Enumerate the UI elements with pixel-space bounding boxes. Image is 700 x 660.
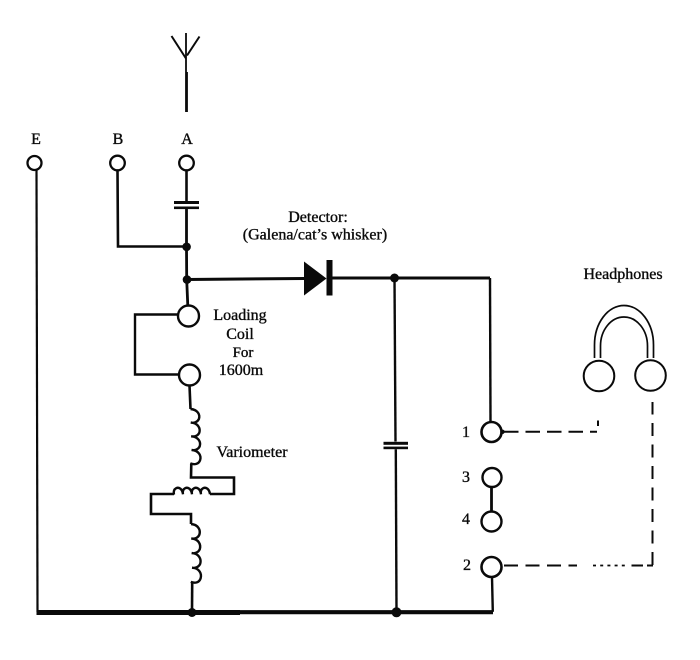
svg-text:Detector:: Detector: <box>288 209 348 226</box>
wire diode to right corner <box>333 277 491 280</box>
terminal B <box>110 156 125 171</box>
svg-text:Coil: Coil <box>226 326 254 343</box>
wire B down and right to junction <box>118 171 187 247</box>
svg-text:Loading: Loading <box>213 307 266 324</box>
svg-text:1: 1 <box>462 424 470 441</box>
terminal A <box>179 156 194 171</box>
headphones headband outer arc <box>595 306 654 359</box>
svg-text:4: 4 <box>462 511 470 528</box>
junction dot (detector tap) <box>183 275 192 284</box>
wire E down to rail <box>37 171 38 613</box>
diode D1 (cat's whisker detector) <box>304 262 327 296</box>
svg-text:(Galena/cat’s whisker): (Galena/cat’s whisker) <box>243 227 387 244</box>
svg-text:B: B <box>113 131 124 148</box>
wire variometer tail to rail <box>191 582 194 611</box>
dashed cord terminal 2 to right <box>504 565 577 567</box>
loading coil bypass bracket wire <box>135 315 179 375</box>
loading coil terminal (top circle) <box>178 306 199 327</box>
terminal 2 <box>482 557 502 577</box>
loading coil terminal (bottom circle) <box>179 365 200 386</box>
terminal 3 <box>483 468 502 487</box>
wire rail up to terminal 2 <box>491 577 494 612</box>
capacitor C2 (tuning capacitor) <box>384 442 409 449</box>
variometer link zigzag lower <box>151 494 191 524</box>
svg-text:2: 2 <box>463 557 471 574</box>
svg-text:Variometer: Variometer <box>216 444 288 461</box>
junction dot (B join) <box>182 243 191 252</box>
capacitor C1 (aerial series capacitor) <box>174 201 199 209</box>
bottom rail wire <box>37 610 241 615</box>
svg-text:E: E <box>31 131 41 148</box>
terminal 4 <box>482 512 502 532</box>
headphones right earpiece <box>635 360 666 391</box>
wire A down to capacitor <box>185 171 188 202</box>
variometer link zigzag <box>191 464 234 495</box>
junction dot (capacitor branch to rail) <box>392 607 402 617</box>
wire capacitor branch lower <box>395 449 398 611</box>
wire corner down to terminal 1 <box>489 278 492 422</box>
svg-text:3: 3 <box>462 469 470 486</box>
wire capacitor down to loading coil <box>187 209 188 306</box>
variometer lower coil <box>191 524 201 583</box>
wire capacitor branch upper <box>395 278 396 442</box>
dashed cord vertical to right earpiece <box>652 402 654 565</box>
svg-text:Headphones: Headphones <box>583 266 662 283</box>
junction dot (tuning capacitor branch) <box>390 274 399 283</box>
headphones left earpiece <box>584 361 615 392</box>
variometer upper coil <box>190 409 200 464</box>
antenna <box>172 33 200 112</box>
junction dot (variometer to rail) <box>188 608 197 617</box>
headphones headband inner arc <box>601 317 648 358</box>
terminal E <box>28 156 42 170</box>
wire bottom circle to variometer <box>190 386 191 410</box>
variometer rotor coil (horizontal) <box>174 488 210 495</box>
svg-text:A: A <box>181 131 193 148</box>
wire junction to diode <box>187 279 304 280</box>
terminal 1 <box>482 422 502 442</box>
svg-text:For: For <box>233 345 254 361</box>
svg-text:1600m: 1600m <box>219 362 264 379</box>
wire link terminals 3-4 <box>490 487 493 512</box>
dashed cord terminal 1 to left earpiece <box>500 430 504 434</box>
